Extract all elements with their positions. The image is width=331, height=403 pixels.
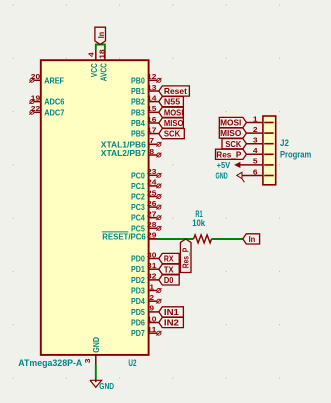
svg-text:In: In xyxy=(249,234,256,244)
svg-text:J2: J2 xyxy=(280,138,289,148)
svg-text:PD5: PD5 xyxy=(131,307,145,317)
svg-text:AVCC: AVCC xyxy=(98,63,108,81)
svg-text:GND: GND xyxy=(91,337,101,353)
svg-text:PD2: PD2 xyxy=(131,275,145,285)
svg-text:16: 16 xyxy=(147,117,157,124)
svg-text:GND: GND xyxy=(216,172,228,181)
svg-text:22: 22 xyxy=(31,106,41,113)
svg-text:IN2: IN2 xyxy=(164,318,179,328)
svg-text:ADC7: ADC7 xyxy=(44,107,64,117)
svg-text:PC0: PC0 xyxy=(131,170,145,180)
svg-text:27: 27 xyxy=(147,212,157,219)
svg-text:ADC6: ADC6 xyxy=(44,97,64,107)
svg-text:Reset: Reset xyxy=(164,86,187,96)
svg-text:U2: U2 xyxy=(128,358,136,368)
svg-text:PC2: PC2 xyxy=(131,192,145,202)
svg-text:D0: D0 xyxy=(164,275,174,285)
svg-text:2: 2 xyxy=(149,295,154,302)
svg-text:MOSI: MOSI xyxy=(220,118,241,128)
svg-text:RX: RX xyxy=(164,254,174,264)
svg-text:13: 13 xyxy=(147,85,157,92)
svg-text:10k: 10k xyxy=(192,218,206,228)
svg-text:+5V: +5V xyxy=(217,161,231,170)
svg-text:MISO: MISO xyxy=(220,128,242,138)
svg-text:In: In xyxy=(96,32,106,38)
svg-text:8: 8 xyxy=(149,149,154,156)
svg-text:18: 18 xyxy=(99,49,106,59)
svg-text:PB4: PB4 xyxy=(131,118,145,128)
svg-text:Res_P: Res_P xyxy=(216,149,241,159)
svg-text:Res_P: Res_P xyxy=(181,247,191,268)
svg-text:N55: N55 xyxy=(164,97,181,107)
svg-text:17: 17 xyxy=(147,127,157,134)
svg-text:RESET/PC6: RESET/PC6 xyxy=(102,232,146,242)
svg-text:7: 7 xyxy=(149,138,154,145)
svg-text:PD3: PD3 xyxy=(131,286,145,296)
svg-text:PB1: PB1 xyxy=(131,86,145,96)
svg-text:9: 9 xyxy=(149,306,154,313)
svg-text:MOSI: MOSI xyxy=(164,107,184,117)
svg-text:SCK: SCK xyxy=(225,139,241,149)
svg-text:14: 14 xyxy=(147,95,157,102)
svg-text:ATmega328P-A: ATmega328P-A xyxy=(18,358,83,368)
svg-text:PB0: PB0 xyxy=(131,75,145,85)
svg-text:10: 10 xyxy=(147,316,157,323)
svg-text:30: 30 xyxy=(147,252,157,259)
svg-text:19: 19 xyxy=(31,95,41,102)
svg-text:AREF: AREF xyxy=(44,75,64,85)
svg-text:VCC: VCC xyxy=(89,63,99,77)
svg-text:15: 15 xyxy=(147,106,157,113)
svg-text:4: 4 xyxy=(89,52,96,57)
svg-text:PD1: PD1 xyxy=(131,264,145,274)
svg-text:TX: TX xyxy=(164,264,174,274)
svg-text:25: 25 xyxy=(147,190,157,197)
svg-text:23: 23 xyxy=(147,169,157,176)
svg-text:GND: GND xyxy=(99,382,114,391)
svg-text:IN1: IN1 xyxy=(164,307,179,317)
svg-text:PD6: PD6 xyxy=(131,318,145,328)
svg-text:31: 31 xyxy=(147,263,157,270)
svg-text:32: 32 xyxy=(147,274,157,281)
svg-text:PD7: PD7 xyxy=(131,328,145,338)
svg-text:PB3: PB3 xyxy=(131,107,145,117)
svg-text:SCK: SCK xyxy=(164,129,180,139)
svg-text:PC4: PC4 xyxy=(131,213,145,223)
svg-text:PD0: PD0 xyxy=(131,254,145,264)
svg-text:Program: Program xyxy=(280,150,311,160)
svg-text:MISO: MISO xyxy=(164,118,184,128)
svg-text:3: 3 xyxy=(85,358,92,363)
svg-text:26: 26 xyxy=(147,201,157,208)
svg-text:XTAL2/PB7: XTAL2/PB7 xyxy=(101,148,146,158)
svg-text:PD4: PD4 xyxy=(131,296,145,306)
svg-text:PC1: PC1 xyxy=(131,181,145,191)
svg-text:28: 28 xyxy=(147,222,157,229)
svg-text:12: 12 xyxy=(147,74,157,81)
svg-text:PC3: PC3 xyxy=(131,202,145,212)
svg-text:1: 1 xyxy=(149,284,154,291)
svg-text:PB5: PB5 xyxy=(131,129,145,139)
svg-text:PB2: PB2 xyxy=(131,97,145,107)
svg-text:11: 11 xyxy=(147,327,157,334)
svg-text:20: 20 xyxy=(31,74,41,81)
svg-text:24: 24 xyxy=(147,180,157,187)
